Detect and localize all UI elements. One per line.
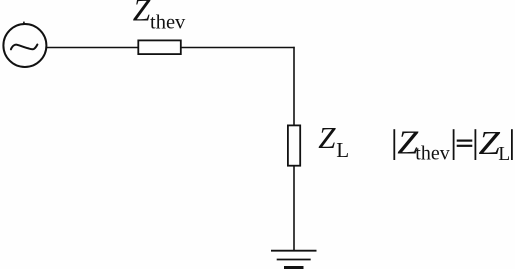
resistor Z_L — [288, 125, 300, 165]
resistor Z_thev — [138, 40, 181, 54]
svg-text:L: L — [336, 138, 349, 162]
label Z_L — [318, 120, 349, 162]
wire source to Z_thev — [47, 47, 138, 49]
wire Z_L to ground — [293, 167, 295, 251]
label Z_thev — [133, 0, 186, 34]
svg-text:Z: Z — [318, 120, 336, 155]
svg-text:Z: Z — [133, 0, 151, 28]
svg-text:L: L — [498, 144, 510, 165]
svg-text:thev: thev — [150, 12, 186, 34]
AC source V1 — [3, 22, 46, 67]
wire corner down to Z_L — [293, 47, 295, 125]
svg-text:thev: thev — [415, 143, 449, 165]
equation |Z_thev| = |Z_L| — [394, 125, 512, 165]
wire Z_thev to corner — [182, 47, 295, 49]
ground — [271, 251, 317, 269]
